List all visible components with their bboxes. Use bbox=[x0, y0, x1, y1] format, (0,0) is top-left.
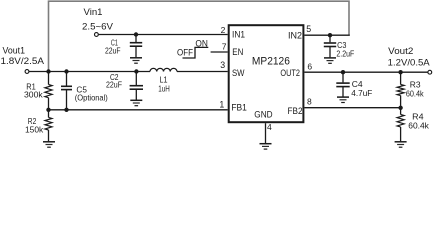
svg-text:1.2V/0.5A: 1.2V/0.5A bbox=[388, 57, 431, 67]
junction node C5 bottom bbox=[64, 108, 68, 112]
svg-text:2: 2 bbox=[221, 25, 226, 35]
svg-text:Vout1: Vout1 bbox=[3, 45, 26, 55]
wire: Vout1 terminal to SW pin 3 bbox=[29, 71, 150, 73]
terminal Vout1 bbox=[25, 70, 29, 74]
svg-text:7: 7 bbox=[222, 42, 227, 52]
svg-text:FB1: FB1 bbox=[231, 103, 247, 113]
svg-text:IN2: IN2 bbox=[288, 30, 302, 40]
svg-text:1.8V/2.5A: 1.8V/2.5A bbox=[1, 56, 45, 66]
wire: IN2 pin 5 to feedback rail bbox=[304, 34, 349, 36]
svg-text:6: 6 bbox=[307, 62, 312, 72]
svg-text:22uF: 22uF bbox=[106, 79, 122, 89]
capacitor C4 bbox=[336, 72, 349, 96]
svg-text:IN1: IN1 bbox=[232, 30, 245, 40]
svg-text:3: 3 bbox=[220, 60, 225, 70]
junction node C1/IN1 bbox=[134, 32, 138, 36]
junction node C4/OUT2 bbox=[341, 70, 345, 74]
ground below pin 4 bbox=[260, 144, 272, 149]
ground below R2 bbox=[43, 142, 55, 147]
svg-text:8: 8 bbox=[307, 97, 312, 107]
svg-text:Vout2: Vout2 bbox=[388, 46, 413, 56]
junction node C2/L1 bbox=[134, 69, 138, 73]
wire: OUT2 pin 6 to Vout2 terminal bbox=[304, 71, 427, 73]
op-amp U1 MP2126 IC body bbox=[229, 25, 304, 122]
wire: FB1 line bbox=[49, 109, 228, 111]
wire: grey feedback loop Vout1 to IN2 (left vertical, top rail, right vertical) bbox=[49, 1, 350, 71]
junction node R3/OUT2 bbox=[398, 70, 402, 74]
resistor R3 bbox=[397, 72, 404, 108]
svg-text:60.4k: 60.4k bbox=[408, 121, 429, 131]
svg-text:150k: 150k bbox=[25, 125, 44, 135]
svg-text:MP2126: MP2126 bbox=[252, 56, 290, 68]
svg-text:FB2: FB2 bbox=[288, 106, 303, 116]
inductor L1 bbox=[150, 68, 177, 71]
resistor R4 bbox=[397, 108, 404, 142]
svg-text:GND: GND bbox=[254, 110, 273, 120]
EN step waveform OFF/ON bbox=[183, 47, 209, 58]
svg-text:ON: ON bbox=[195, 38, 208, 48]
svg-text:22uF: 22uF bbox=[105, 45, 121, 55]
wire: GND pin 4 to ground bbox=[265, 123, 267, 143]
svg-text:OFF: OFF bbox=[177, 47, 193, 57]
junction node C5 top bbox=[64, 69, 68, 73]
terminal Vout2 bbox=[428, 70, 432, 74]
capacitor C5 bbox=[61, 72, 72, 110]
ground below C1 bbox=[130, 58, 142, 63]
capacitor C1 bbox=[130, 35, 142, 58]
svg-text:OUT2: OUT2 bbox=[280, 68, 300, 78]
resistor R2 bbox=[45, 110, 52, 142]
junction node FB1/R1/R2 bbox=[46, 108, 50, 112]
svg-text:1: 1 bbox=[219, 100, 224, 110]
svg-text:2.5~6V: 2.5~6V bbox=[82, 21, 114, 31]
junction node FB2/R3/R4 bbox=[398, 106, 402, 110]
svg-text:SW: SW bbox=[232, 68, 245, 78]
svg-text:EN: EN bbox=[232, 47, 243, 57]
svg-text:60.4k: 60.4k bbox=[406, 89, 424, 99]
svg-text:300k: 300k bbox=[24, 90, 43, 100]
svg-text:4: 4 bbox=[267, 122, 272, 132]
ground below C2 bbox=[130, 100, 142, 105]
ground below R4 bbox=[395, 142, 407, 147]
svg-text:5: 5 bbox=[306, 24, 311, 34]
wire: FB2 line bbox=[304, 107, 400, 109]
wire: Vin1 terminal to IN1 pin 2 bbox=[99, 34, 228, 36]
svg-text:4.7uF: 4.7uF bbox=[351, 88, 372, 98]
resistor R1 bbox=[45, 72, 52, 110]
ground below C3 bbox=[324, 58, 336, 63]
terminal Vin1 bbox=[95, 33, 99, 37]
svg-text:2.2uF: 2.2uF bbox=[336, 48, 354, 58]
junction node R1 top bbox=[46, 69, 50, 73]
ground below C4 bbox=[337, 97, 349, 102]
junction node C3/IN2 bbox=[328, 33, 332, 37]
svg-text:1uH: 1uH bbox=[158, 83, 170, 93]
capacitor C3 bbox=[324, 35, 336, 57]
wire: EN stub to pin 7 bbox=[211, 51, 228, 53]
capacitor C2 bbox=[130, 72, 143, 101]
svg-text:(Optional): (Optional) bbox=[75, 93, 108, 103]
svg-text:Vin1: Vin1 bbox=[84, 7, 103, 17]
